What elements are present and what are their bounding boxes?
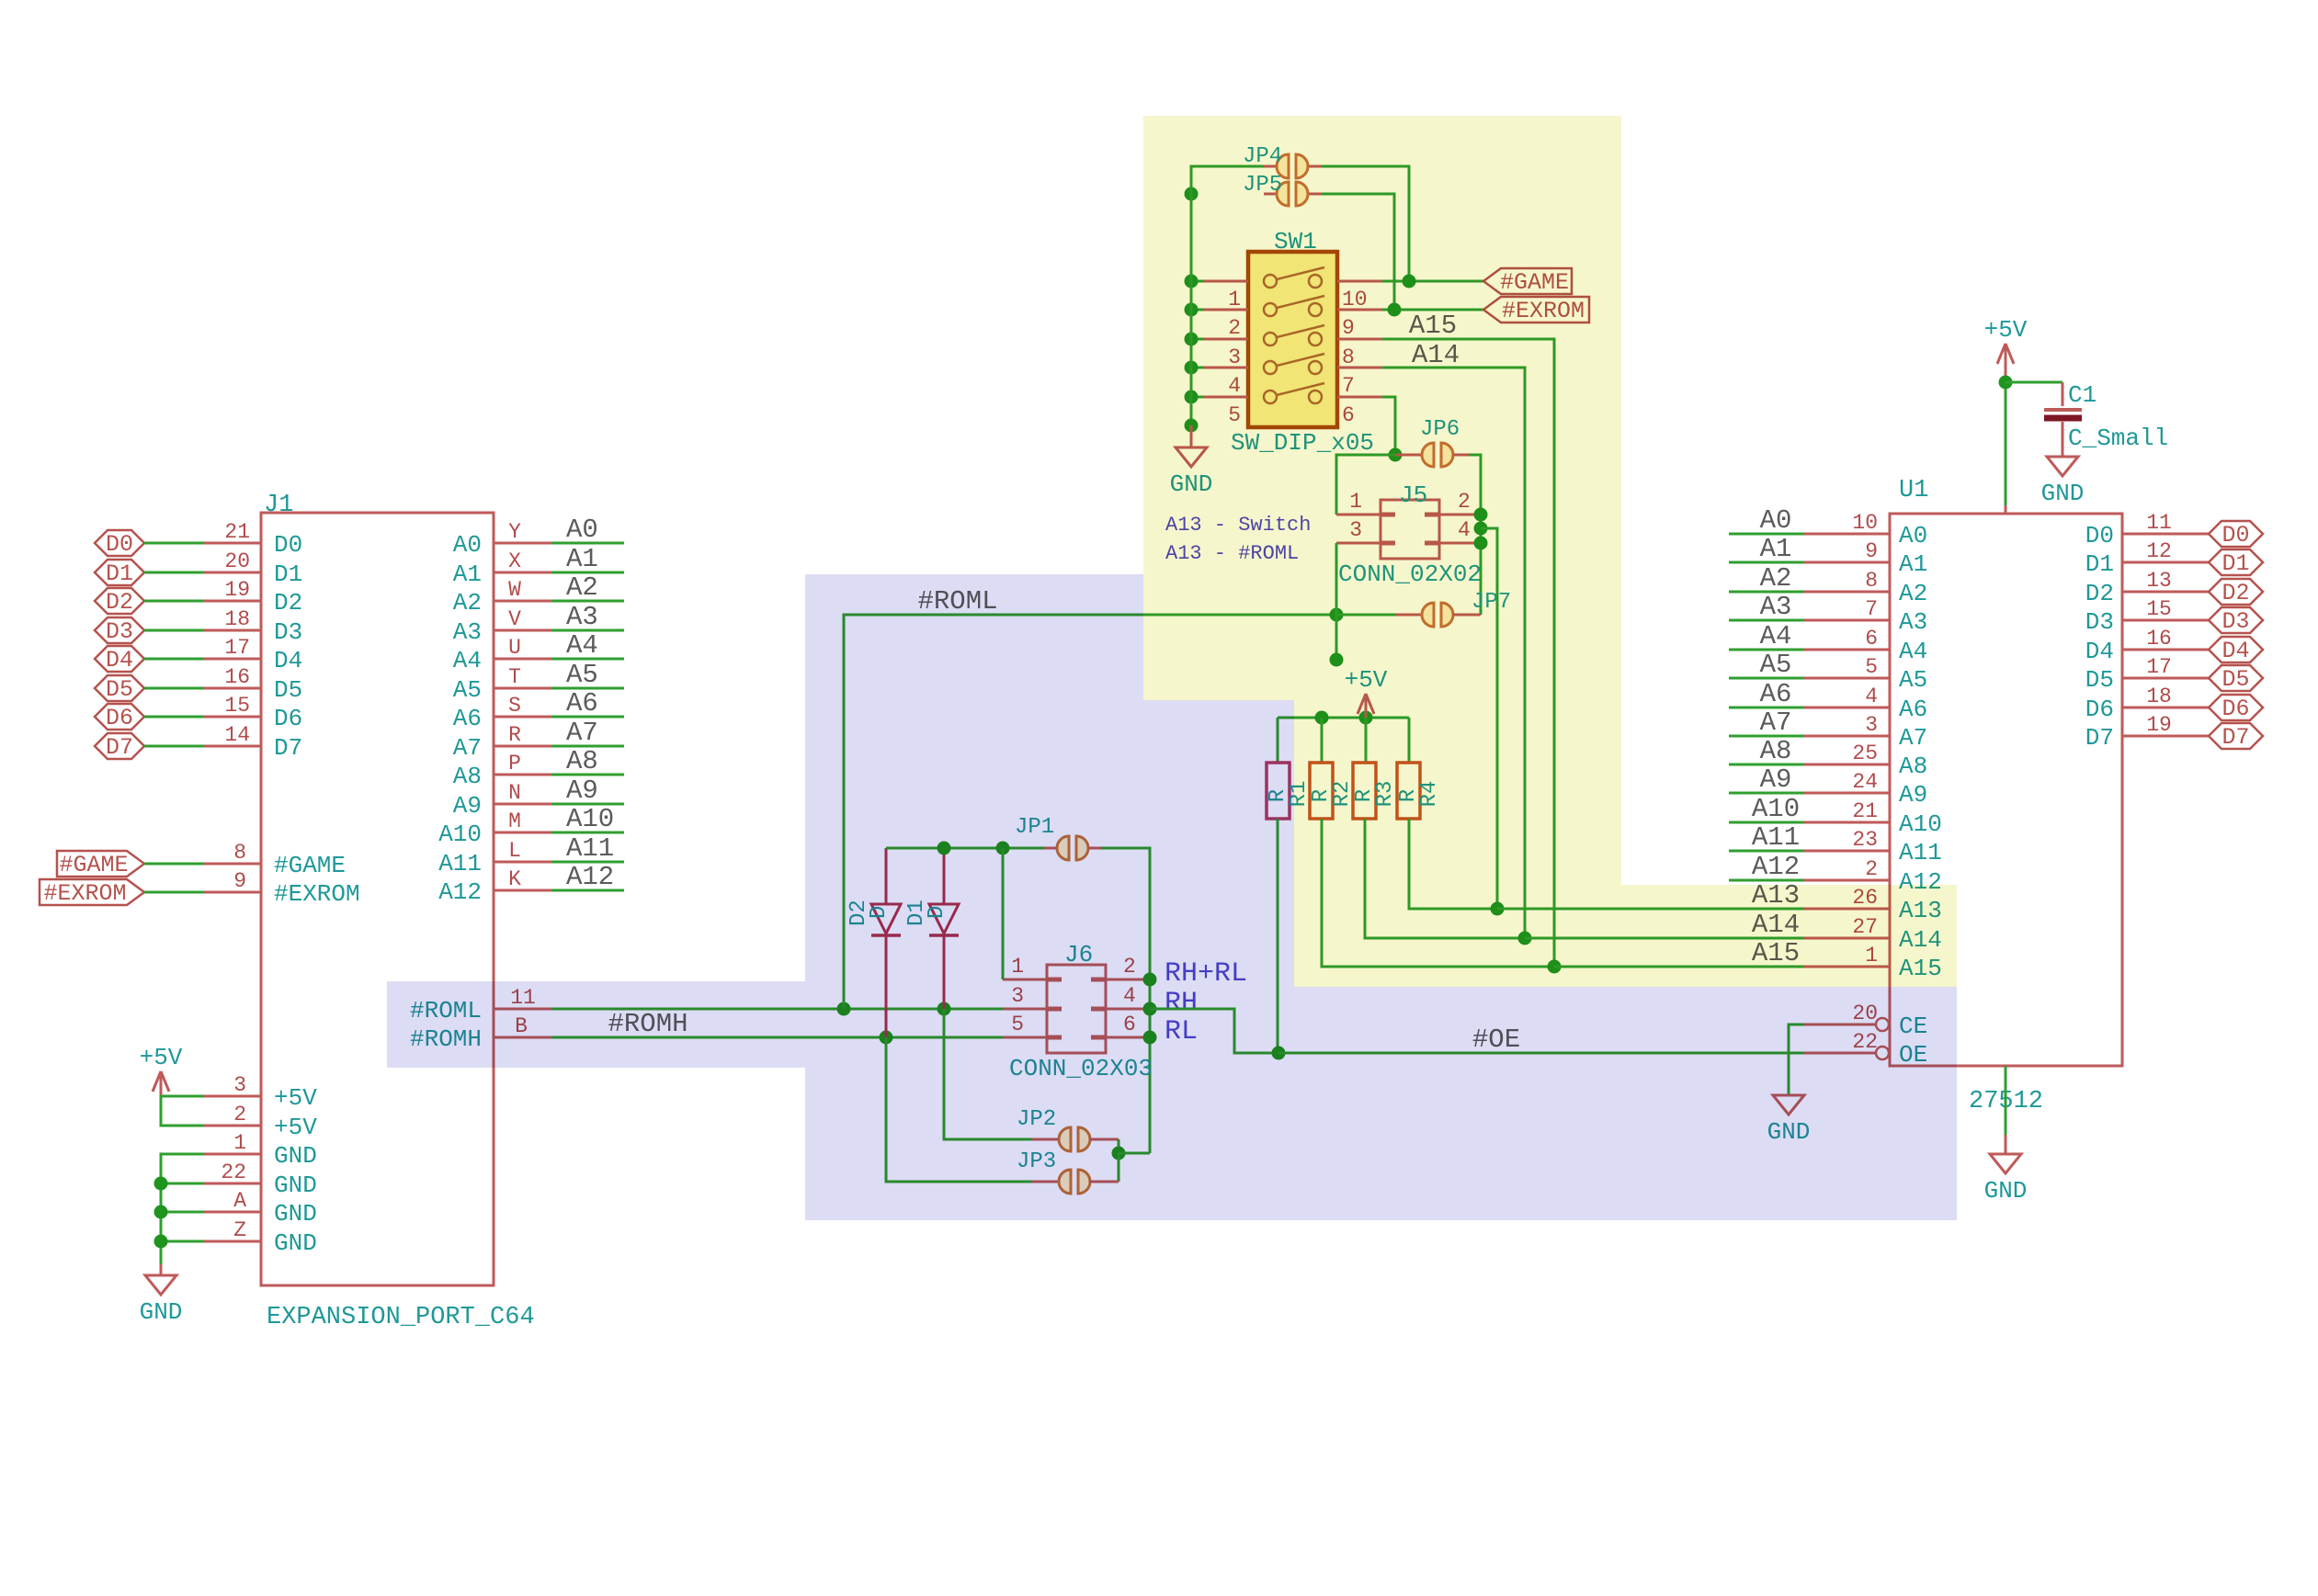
hex label D0 right: [2209, 521, 2263, 547]
hex label D5 right: [2209, 665, 2263, 691]
svg-text:A2: A2: [1760, 563, 1792, 594]
wire A11 from J1: [551, 861, 624, 864]
svg-text:A7: A7: [453, 734, 482, 762]
svg-text:D1: D1: [274, 560, 302, 588]
wire A4 from J1: [551, 658, 624, 661]
junction GND J1 pin22: [154, 1177, 168, 1191]
svg-text:13: 13: [2146, 569, 2172, 593]
wire JP2/JP3 tie to RL riser: [1119, 1152, 1150, 1155]
hex label D2 right: [2209, 579, 2263, 605]
pin 21 A10 of U1: [1803, 821, 1890, 824]
svg-text:D6: D6: [2085, 696, 2114, 723]
junction SW rail row 4: [1185, 361, 1199, 375]
wire JP2 right bend: [1118, 1139, 1120, 1153]
svg-text:#GAME: #GAME: [59, 852, 128, 878]
wire A9 at U1: [1729, 792, 1803, 795]
svg-text:C_Small: C_Small: [2068, 424, 2168, 452]
svg-text:D0: D0: [274, 531, 302, 559]
junction J5 pin4: [1474, 537, 1488, 550]
pin 6 of SW1: [1337, 396, 1382, 399]
svg-text:L: L: [508, 839, 521, 863]
wire A7 at U1: [1729, 735, 1803, 738]
jumper JP4: [1264, 165, 1277, 168]
svg-text:A11: A11: [1752, 822, 1800, 853]
pin 1 of J6: [1003, 979, 1047, 981]
pin 12 D1 of U1: [2122, 561, 2209, 564]
pin V A3 of J1: [494, 629, 551, 632]
svg-text:A6: A6: [566, 688, 598, 719]
svg-text:GND: GND: [2041, 480, 2085, 507]
pin 8 of SW1: [1337, 338, 1382, 341]
wire J5 pin2-pin4 tie: [1480, 455, 1483, 615]
svg-text:A1: A1: [566, 544, 598, 574]
svg-text:A0: A0: [1899, 522, 1927, 549]
pin 1 of J5: [1336, 514, 1381, 516]
svg-text:A6: A6: [1899, 696, 1927, 723]
hex label D3 right: [2209, 607, 2263, 633]
wire JP3 right bend: [1118, 1153, 1120, 1182]
svg-text:U: U: [508, 636, 521, 660]
svg-text:D0: D0: [2085, 522, 2114, 549]
pin 22 GND of J1: [203, 1183, 261, 1185]
pin R A7 of J1: [494, 745, 551, 748]
hex label #EXROM right: [1483, 297, 1589, 323]
pin 26 A13 of U1: [1803, 908, 1890, 911]
svg-text:A10: A10: [438, 821, 482, 848]
pin K A12 of J1: [494, 889, 551, 892]
junction SW rail row 5: [1185, 391, 1199, 404]
svg-text:A5: A5: [1899, 666, 1927, 694]
ground pin wire U1 bottom: [2005, 1066, 2007, 1135]
svg-text:D2: D2: [2085, 580, 2114, 607]
pin 25 A8 of U1: [1803, 764, 1890, 766]
svg-text:A5: A5: [566, 660, 598, 690]
pin 11 D0 of U1: [2122, 533, 2209, 536]
svg-text:16: 16: [224, 665, 250, 689]
pin 20 CE of U1: [1803, 1024, 1876, 1026]
pin 4 of J5: [1439, 542, 1481, 545]
jumper JP2: [1031, 1138, 1059, 1141]
svg-text:D5: D5: [2221, 666, 2249, 693]
svg-text:D3: D3: [106, 618, 133, 645]
svg-text:#GAME: #GAME: [274, 852, 346, 879]
wire D0 J1: [144, 542, 203, 545]
wire A1 from J1: [551, 572, 624, 574]
svg-text:3: 3: [233, 1073, 246, 1097]
pin 23 A11 of U1: [1803, 850, 1890, 853]
power symbol +5V at resistors: [1365, 694, 1368, 718]
svg-text:D4: D4: [106, 647, 133, 673]
pin 18 D3 of J1: [203, 629, 261, 632]
wire A14 from SW1 pin7: [1382, 368, 1525, 938]
svg-text:A9: A9: [566, 775, 598, 806]
wire D3 J1: [144, 629, 203, 632]
svg-text:A8: A8: [1899, 753, 1927, 780]
pin 3 +5V of J1: [203, 1095, 261, 1098]
pin 8 A2 of U1: [1803, 591, 1890, 594]
junction stub end: [1330, 653, 1344, 667]
wire R4 to A13 net: [1409, 819, 1497, 909]
pin 19 D2 of J1: [203, 600, 261, 603]
hex label D3 left: [95, 617, 144, 643]
svg-text:A9: A9: [1760, 764, 1792, 795]
pin 8 #GAME of J1: [203, 863, 261, 866]
ground symbol GND at SW1: [1190, 425, 1193, 447]
svg-text:6: 6: [1865, 627, 1878, 651]
ground symbol GND at C1: [2047, 457, 2078, 476]
pin 10 A0 of U1: [1803, 533, 1890, 536]
wire A1 at U1: [1729, 561, 1803, 564]
svg-text:9: 9: [233, 869, 246, 893]
svg-text:25: 25: [1852, 741, 1878, 765]
svg-text:D5: D5: [274, 676, 302, 704]
wire D1 J1: [144, 572, 203, 574]
svg-text:D6: D6: [106, 705, 133, 731]
wire D7 J1: [144, 745, 203, 748]
wire A12 at U1: [1729, 879, 1803, 882]
pin 2 +5V of J1: [203, 1125, 261, 1127]
svg-text:11: 11: [2146, 511, 2172, 535]
wire D1 cathode to JP2: [944, 1009, 1031, 1139]
wire +5V rail above resistors: [1278, 717, 1409, 719]
wire SW1 ground rail vertical: [1190, 166, 1193, 425]
svg-text:A0: A0: [566, 515, 598, 545]
junction JP1 wire at J6 pin1 riser: [996, 842, 1010, 855]
wire A11 at U1: [1729, 850, 1803, 853]
switch SW1 element 2: [1264, 303, 1277, 316]
junction #GAME at JP4 drop: [1403, 275, 1416, 289]
pin 9 of SW1: [1337, 309, 1382, 311]
svg-text:D7: D7: [274, 734, 302, 762]
wire JP1 row left: [886, 847, 1044, 850]
svg-text:M: M: [508, 809, 521, 833]
pin Z GND of J1: [203, 1240, 261, 1243]
svg-text:D1: D1: [2221, 550, 2249, 577]
wire JP4 right to #GAME: [1322, 166, 1409, 281]
svg-text:D3: D3: [2221, 608, 2249, 635]
wire GND bus J1: [161, 1154, 203, 1264]
pin 22 OE of U1: [1803, 1052, 1876, 1055]
svg-text:D7: D7: [2221, 724, 2249, 751]
hex label D1 left: [95, 560, 144, 585]
wire A8 from J1: [551, 774, 624, 776]
jumper JP5: [1264, 193, 1277, 196]
svg-text:A12: A12: [566, 862, 614, 892]
pin 24 A9 of U1: [1803, 792, 1890, 795]
junction A13 branch: [1474, 522, 1488, 536]
svg-text:A8: A8: [453, 763, 482, 790]
junction A13-switch at JP6: [1389, 448, 1403, 462]
capacitor C1 C_Small: [2062, 382, 2064, 406]
wire D2 cathode to JP3: [886, 1037, 1031, 1182]
pin P A8 of J1: [494, 774, 551, 776]
svg-text:15: 15: [2146, 597, 2172, 621]
svg-text:17: 17: [224, 636, 250, 660]
junction rail at R2: [1315, 711, 1329, 725]
highlight region lavender strip: [387, 981, 805, 1068]
wire JP4 left to SW rail: [1191, 166, 1264, 194]
svg-text:EXPANSION_PORT_C64: EXPANSION_PORT_C64: [267, 1304, 535, 1331]
svg-text:12: 12: [2146, 539, 2172, 563]
wire SW1 left pin 5: [1191, 396, 1203, 399]
svg-text:A12: A12: [1752, 852, 1800, 882]
svg-text:+5V: +5V: [274, 1114, 317, 1141]
wire #ROML from J1 to J6 pin3: [551, 1008, 1003, 1011]
svg-text:U1: U1: [1899, 477, 1928, 504]
highlight region yellow: [1143, 116, 1957, 987]
junction R2 at A15: [1548, 960, 1562, 974]
svg-text:+5V: +5V: [274, 1084, 317, 1112]
wire J6 pin1 riser: [1002, 848, 1005, 979]
junction R1 at OE: [1272, 1047, 1286, 1060]
svg-text:A5: A5: [453, 676, 482, 704]
svg-text:GND: GND: [1984, 1177, 2028, 1205]
svg-text:18: 18: [224, 607, 250, 631]
wire D2 J1: [144, 600, 203, 603]
pin U A4 of J1: [494, 658, 551, 661]
switch SW1 element 1: [1264, 275, 1277, 288]
svg-text:+5V: +5V: [1984, 316, 2028, 344]
svg-text:A1: A1: [1760, 534, 1792, 564]
svg-text:A10: A10: [1752, 794, 1800, 824]
svg-text:10: 10: [1852, 511, 1878, 535]
hex label D5 left: [95, 675, 144, 701]
junction GND J1 pinZ: [154, 1235, 168, 1249]
svg-text:X: X: [508, 549, 521, 573]
pin 7 of SW1: [1337, 367, 1382, 369]
wire A3 from J1: [551, 629, 624, 632]
junction J5 pin2: [1474, 508, 1488, 522]
svg-text:A4: A4: [453, 647, 482, 674]
wire D5 J1: [144, 687, 203, 690]
svg-text:A2: A2: [1899, 580, 1927, 607]
svg-text:A6: A6: [453, 705, 482, 732]
svg-text:GND: GND: [274, 1142, 317, 1170]
wire A3 at U1: [1729, 619, 1803, 622]
wire R1 to OE net: [1277, 819, 1279, 1053]
svg-text:D2: D2: [274, 589, 302, 617]
svg-text:D2: D2: [2221, 580, 2249, 606]
svg-text:3: 3: [1865, 713, 1878, 737]
wire CE to ground: [1789, 1024, 1803, 1095]
svg-text:8: 8: [233, 841, 246, 865]
hex label #EXROM left: [40, 879, 144, 905]
svg-text:D6: D6: [2221, 696, 2249, 722]
wire SW1 left pin 3: [1191, 338, 1203, 341]
svg-text:A11: A11: [438, 850, 482, 877]
svg-text:K: K: [508, 867, 521, 891]
svg-text:S: S: [508, 694, 521, 718]
hex label #GAME right: [1483, 268, 1572, 294]
hex label D6 left: [95, 704, 144, 730]
wire A2 at U1: [1729, 591, 1803, 594]
wire JP6 right to J5 pin2: [1469, 455, 1481, 515]
pin 1 GND of J1: [203, 1153, 261, 1156]
switch SW1 SW_DIP_x05 body: [1248, 252, 1337, 427]
svg-text:J1: J1: [264, 492, 293, 519]
svg-text:T: T: [508, 665, 521, 689]
svg-text:N: N: [508, 781, 521, 805]
svg-text:GND: GND: [274, 1172, 317, 1199]
svg-text:A4: A4: [1899, 638, 1927, 665]
wire A12 from J1: [551, 889, 624, 892]
svg-text:A0: A0: [453, 531, 482, 559]
svg-text:A11: A11: [1899, 839, 1942, 866]
connector J6 CONN_02X03 body: [1047, 965, 1106, 1053]
svg-text:D4: D4: [2085, 638, 2114, 665]
svg-text:A5: A5: [1760, 650, 1792, 680]
pin 19 D7 of U1: [2122, 735, 2209, 738]
svg-text:D7: D7: [106, 734, 133, 761]
pin 3 of J5: [1336, 542, 1381, 545]
wire #OE to U1: [1278, 1052, 1803, 1055]
svg-text:GND: GND: [274, 1229, 317, 1257]
svg-text:C1: C1: [2068, 381, 2096, 409]
resistor R2: [1321, 718, 1324, 763]
pin 16 D5 of J1: [203, 687, 261, 690]
svg-text:D5: D5: [2085, 666, 2114, 694]
svg-text:16: 16: [2146, 627, 2172, 651]
junction JP2-JP3 tie: [1112, 1147, 1126, 1160]
svg-text:4: 4: [1865, 685, 1878, 708]
svg-text:D4: D4: [274, 647, 302, 674]
pin 2 of J5: [1439, 514, 1481, 516]
hex label #GAME left: [57, 851, 144, 877]
svg-text:A10: A10: [566, 804, 614, 834]
pin 16 D4 of U1: [2122, 649, 2209, 651]
switch SW1 element 4: [1264, 361, 1277, 374]
jumper JP6: [1395, 454, 1423, 457]
pin 9 A1 of U1: [1803, 561, 1890, 564]
wire #EXROM J1: [144, 891, 203, 894]
wire R3 to A14 net: [1365, 819, 1525, 938]
ground symbol GND at U1: [1990, 1154, 2021, 1173]
svg-text:20: 20: [224, 549, 250, 573]
svg-text:A7: A7: [566, 718, 598, 748]
pin 1 A15 of U1: [1803, 966, 1890, 968]
jumper JP3: [1031, 1181, 1059, 1183]
pin 20 D1 of J1: [203, 572, 261, 574]
resistor R3: [1365, 718, 1368, 763]
wire A13 branch to riser: [1481, 528, 1497, 909]
svg-text:A: A: [233, 1189, 246, 1213]
svg-text:#EXROM: #EXROM: [43, 880, 126, 907]
wire J5 pin3 to #ROML junction: [1335, 543, 1338, 615]
hex label D4 left: [95, 646, 144, 672]
svg-text:21: 21: [1852, 799, 1878, 823]
pin 11 #ROML of J1: [494, 1008, 551, 1011]
connector J1 EXPANSION_PORT_C64 body: [261, 513, 494, 1285]
svg-text:P: P: [508, 752, 521, 775]
svg-text:A8: A8: [566, 746, 598, 776]
svg-text:A2: A2: [453, 589, 482, 617]
svg-text:W: W: [508, 578, 521, 602]
pin 5 of J6: [1003, 1036, 1047, 1039]
wire A6 from J1: [551, 716, 624, 719]
hex label D2 left: [95, 588, 144, 614]
pin M A10 of J1: [494, 832, 551, 834]
pin 27 A14 of U1: [1803, 937, 1890, 940]
switch SW1 element 5: [1264, 391, 1277, 403]
wire A7 from J1: [551, 745, 624, 748]
svg-text:D1: D1: [2085, 550, 2114, 578]
svg-text:D0: D0: [106, 531, 133, 558]
pin T A5 of J1: [494, 687, 551, 690]
pin W A2 of J1: [494, 600, 551, 603]
svg-text:GND: GND: [140, 1298, 183, 1326]
pin 3 of J6: [1003, 1008, 1047, 1011]
hex label D7 right: [2209, 723, 2263, 749]
highlight region lavender: [805, 574, 1957, 1220]
svg-text:24: 24: [1852, 770, 1878, 794]
pin A GND of J1: [203, 1211, 261, 1214]
junction R3 at A14: [1518, 932, 1532, 945]
pin 2 of SW1: [1203, 309, 1248, 311]
wire D4 J1: [144, 658, 203, 661]
svg-text:14: 14: [224, 723, 250, 747]
svg-text:A0: A0: [1760, 505, 1792, 536]
svg-text:A2: A2: [566, 572, 598, 603]
svg-text:18: 18: [2146, 685, 2172, 708]
junction SW rail bottom: [1185, 419, 1199, 433]
svg-text:1: 1: [233, 1131, 246, 1155]
hex label D0 left: [95, 530, 144, 556]
svg-text:9: 9: [1865, 539, 1878, 563]
pin 17 D5 of U1: [2122, 677, 2209, 680]
pin L A11 of J1: [494, 861, 551, 864]
wire #GAME J1: [144, 863, 203, 866]
svg-text:D7: D7: [2085, 724, 2114, 752]
junction GND J1 pinA: [154, 1205, 168, 1219]
wire D6 J1: [144, 716, 203, 719]
wire A2 from J1: [551, 600, 624, 603]
svg-text:A9: A9: [453, 792, 482, 820]
svg-text:V: V: [508, 607, 521, 631]
pin N A9 of J1: [494, 803, 551, 806]
svg-text:A3: A3: [566, 602, 598, 632]
jumper JP7: [1336, 614, 1395, 617]
junction SW rail row 3: [1185, 333, 1199, 346]
wire #ROMH from J1 to J6 pin5: [551, 1036, 1003, 1039]
svg-text:A11: A11: [566, 833, 614, 864]
junction #ROML at vertical riser: [837, 1002, 851, 1016]
svg-text:22: 22: [221, 1160, 246, 1184]
power pin VCC wire U1: [2005, 382, 2007, 505]
pin B #ROMH of J1: [494, 1036, 551, 1039]
switch SW1 element 3: [1264, 333, 1277, 345]
wire A5 from J1: [551, 687, 624, 690]
svg-text:A3: A3: [1899, 608, 1927, 636]
junction SW rail row 1: [1185, 275, 1199, 289]
svg-text:2: 2: [1865, 857, 1878, 881]
diode D2: [885, 848, 888, 904]
svg-text:Z: Z: [233, 1218, 246, 1242]
junction R4 at A13: [1491, 902, 1505, 916]
wire #EXROM from SW1 pin9: [1382, 309, 1483, 311]
svg-text:23: 23: [1852, 828, 1878, 852]
pin 3 A7 of U1: [1803, 735, 1890, 738]
wire A8 at U1: [1729, 764, 1803, 766]
pin 21 D0 of J1: [203, 542, 261, 545]
svg-text:GND: GND: [274, 1200, 317, 1228]
junction #ROML at J5 pin3 riser: [1330, 608, 1344, 622]
pin 15 D3 of U1: [2122, 619, 2209, 622]
wire A5 at U1: [1729, 677, 1803, 680]
pin 4 of SW1: [1203, 367, 1248, 369]
ground symbol GND at J1: [160, 1264, 163, 1275]
svg-text:D1: D1: [106, 560, 133, 587]
pin 10 of SW1: [1337, 280, 1382, 283]
